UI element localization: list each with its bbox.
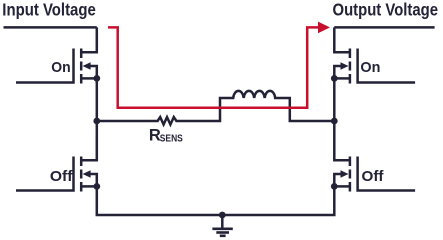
svg-text:SENS: SENS	[160, 133, 183, 144]
svg-text:On: On	[360, 59, 380, 76]
wire left column Q2 source to ground rail	[97, 186, 334, 215]
wire left column Q1 source to sense node	[96, 78, 99, 135]
svg-text:Off: Off	[362, 168, 385, 185]
node source Q4 junction dot	[331, 183, 338, 190]
transistor Q1 left high-side MOSFET	[16, 27, 97, 83]
ground	[212, 212, 232, 236]
wire output rail	[334, 26, 434, 29]
wire right column Q3 source to sense node	[333, 78, 336, 135]
wire input rail	[4, 26, 97, 29]
svg-text:Output Voltage: Output Voltage	[333, 0, 439, 19]
node source Q3 junction dot	[331, 75, 338, 82]
svg-text:On: On	[51, 59, 70, 76]
transistor Q2 left low-side MOSFET	[16, 136, 97, 192]
node source Q2 junction dot	[93, 183, 100, 190]
svg-text:Input Voltage: Input Voltage	[2, 0, 96, 19]
node right sense junction dot	[331, 118, 338, 125]
node left sense junction dot	[93, 118, 100, 125]
transistor Q4 right low-side MOSFET	[334, 136, 415, 192]
node source Q1 junction dot	[93, 75, 100, 82]
label RSENS	[149, 126, 183, 144]
transistor Q3 right high-side MOSFET	[334, 27, 415, 83]
wire sense path with resistor RSENS and inductor L1	[97, 91, 334, 125]
red current path from input to output	[108, 22, 330, 108]
svg-text:Off: Off	[50, 168, 74, 185]
